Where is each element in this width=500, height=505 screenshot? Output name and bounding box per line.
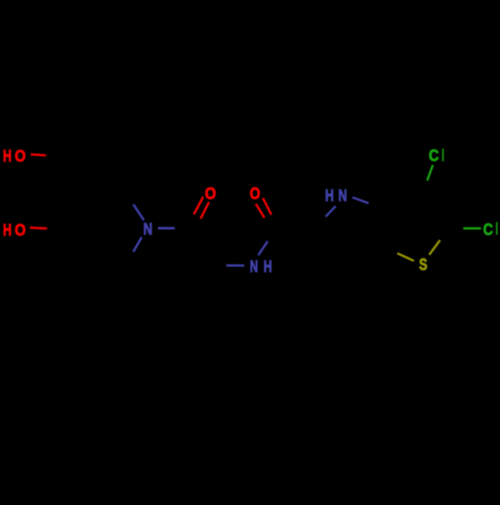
svg-text:O: O: [250, 184, 261, 203]
svg-text:l: l: [496, 220, 498, 239]
svg-text:O: O: [15, 220, 26, 239]
svg-text:O: O: [15, 147, 26, 166]
bond O-CH2 (top hydroxymethyl): [31, 154, 46, 155]
bond NH-CH (left): [226, 264, 244, 266]
svg-text:C: C: [483, 220, 493, 239]
svg-text:N: N: [338, 186, 347, 205]
bond N-C2 (up-left): [133, 204, 144, 220]
svg-text:H: H: [3, 147, 12, 166]
bond Cl-C3 (top chloro): [427, 165, 433, 181]
svg-text:N: N: [143, 220, 152, 239]
bond N-C6 (down-left): [133, 237, 141, 252]
svg-text:N: N: [250, 257, 258, 276]
amide label NH (center): [250, 257, 272, 276]
svg-text:H: H: [264, 257, 273, 276]
pyrrole label HN: [325, 186, 347, 205]
svg-text:S: S: [419, 255, 427, 274]
bond HN-C3a (right): [352, 197, 368, 203]
C=O double bond lines (left amide): [194, 197, 203, 215]
bond O-CH2 (lower hydroxymethyl): [30, 227, 47, 230]
bond NH-C(=O) (up-right): [258, 241, 268, 255]
svg-text:C: C: [429, 146, 439, 165]
svg-text:H: H: [325, 186, 334, 205]
svg-text:l: l: [442, 146, 444, 165]
hydroxyl label HO (top): [3, 147, 26, 166]
svg-text:H: H: [3, 220, 12, 239]
C=O double bond lines (right amide): [256, 204, 265, 218]
bond S-C6a (left): [397, 253, 414, 261]
chlorine label Cl (top): [429, 146, 444, 165]
bond Cl-C2 (right chloro): [463, 227, 481, 229]
bond S-C2 (up-right): [429, 240, 440, 255]
svg-text:O: O: [205, 184, 216, 203]
bond HN-C5 (down-left): [326, 206, 336, 217]
bond N-C(=O) (right): [158, 227, 175, 229]
hydroxyl label HO (lower): [3, 220, 26, 239]
chlorine label Cl (right): [483, 220, 498, 239]
